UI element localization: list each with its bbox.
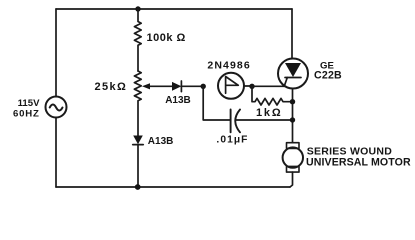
label A13B horizontal [165,95,191,106]
svg-text:25kΩ: 25kΩ [95,81,128,93]
wire left side lower [55,118,57,188]
label 25k ohm [95,81,128,93]
svg-text:115V: 115V [18,98,40,109]
wire bottom bus [56,186,290,188]
diode CR1 A13B horizontal [172,82,181,91]
svg-text:SERIES WOUND: SERIES WOUND [307,145,392,157]
label 2N4986 [207,59,250,71]
label 115V 60HZ [13,98,40,119]
wire left side upper [55,9,57,97]
label series wound universal motor [306,145,411,168]
svg-text:100k Ω: 100k Ω [147,32,186,44]
wire capacitor branch left [203,86,230,120]
svg-text:60HZ: 60HZ [13,108,40,119]
AC source V1 [46,97,67,118]
label 1k ohm [256,107,282,119]
svg-text:UNIVERSAL MOTOR: UNIVERSAL MOTOR [306,157,411,169]
motor M1 brush top [287,143,300,149]
motor M1 brush bottom [287,166,300,172]
label A13B vertical [148,136,174,147]
trigger diode D1 2N4986 [218,73,244,99]
svg-text:A13B: A13B [165,95,191,106]
wire capacitor to cathode line [236,119,292,121]
svg-text:2N4986: 2N4986 [207,59,250,71]
svg-text:1kΩ: 1kΩ [256,107,282,119]
junction node bottom bus / divider [135,184,141,190]
label 100k ohm [147,32,186,44]
SCR Q1 GE C22B [278,59,308,89]
wire top bus [56,8,292,10]
junction node cathode / R3 [290,99,295,104]
junction node A top bus / divider [135,6,140,11]
wire right drop from top bus to SCR anode [291,9,293,59]
wire gate node to SCR gate [252,85,284,87]
svg-text:C22B: C22B [314,70,342,82]
label .01uF [216,135,248,146]
SCR gate lead [284,78,287,87]
motor M1 body [283,147,303,167]
junction node wiper / trigger [201,84,206,89]
svg-text:.01μF: .01μF [216,135,248,146]
wire SCR cathode down [292,89,294,143]
junction node gate branch [249,84,254,89]
svg-text:A13B: A13B [148,136,174,147]
label GE C22B [314,60,342,81]
resistor R1 100k ohm [134,9,141,71]
junction node cathode / capacitor [290,117,295,122]
resistor R3 1k ohm [252,86,293,105]
capacitor C1 .01uF [230,110,232,133]
wire trigger to gate node [244,85,252,87]
wire motor to bottom bus [290,172,293,187]
diode CR2 A13B vertical [133,136,143,145]
potentiometer R2 25k ohm element [134,71,141,136]
potentiometer wiper arrow [142,83,150,89]
